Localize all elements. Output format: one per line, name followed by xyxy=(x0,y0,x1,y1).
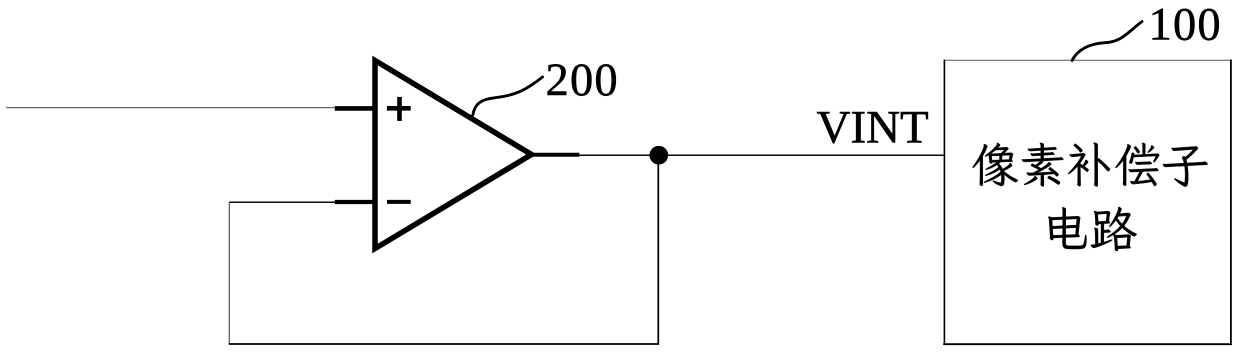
box 100 text char 素 xyxy=(1022,143,1064,187)
wire: feedback left vertical segment xyxy=(228,202,230,344)
node: VINT junction dot xyxy=(649,146,668,165)
leader squiggle for label 200 xyxy=(473,77,543,115)
box 100 bottom edge xyxy=(943,343,1232,345)
svg-text:VINT: VINT xyxy=(817,102,929,154)
box 100: pixel compensation sub-circuit, top edge xyxy=(944,59,1232,61)
op-amp minus pin marker xyxy=(387,200,411,204)
wire: feedback bottom segment xyxy=(229,343,659,345)
box 100 text char 偿 xyxy=(1115,143,1159,186)
wire: output stub xyxy=(532,153,579,157)
box 100 text char 补 xyxy=(1068,143,1110,187)
wire: non-inverting input stub xyxy=(335,106,377,111)
svg-text:100: 100 xyxy=(1149,0,1222,51)
box 100 right edge xyxy=(1230,60,1232,346)
box 100 left edge xyxy=(943,60,945,346)
op-amp U200 triangle xyxy=(375,61,532,249)
wire: non-inverting input line from left edge xyxy=(6,107,336,109)
box 100 text char 子 xyxy=(1163,146,1208,186)
box 100 text char 像 xyxy=(973,143,1018,186)
wire: inverting input stub xyxy=(335,200,377,204)
box 100 text char 路 xyxy=(1091,207,1137,251)
box 100 text char 电 xyxy=(1048,207,1086,249)
op-amp plus pin marker xyxy=(387,97,411,121)
wire: output line to box 100 xyxy=(579,154,944,156)
wire: feedback top segment to inverting input xyxy=(229,201,336,203)
wire: feedback right vertical up to output node xyxy=(657,155,659,345)
leader squiggle for label 100 xyxy=(1072,22,1142,61)
svg-text:200: 200 xyxy=(546,55,619,106)
